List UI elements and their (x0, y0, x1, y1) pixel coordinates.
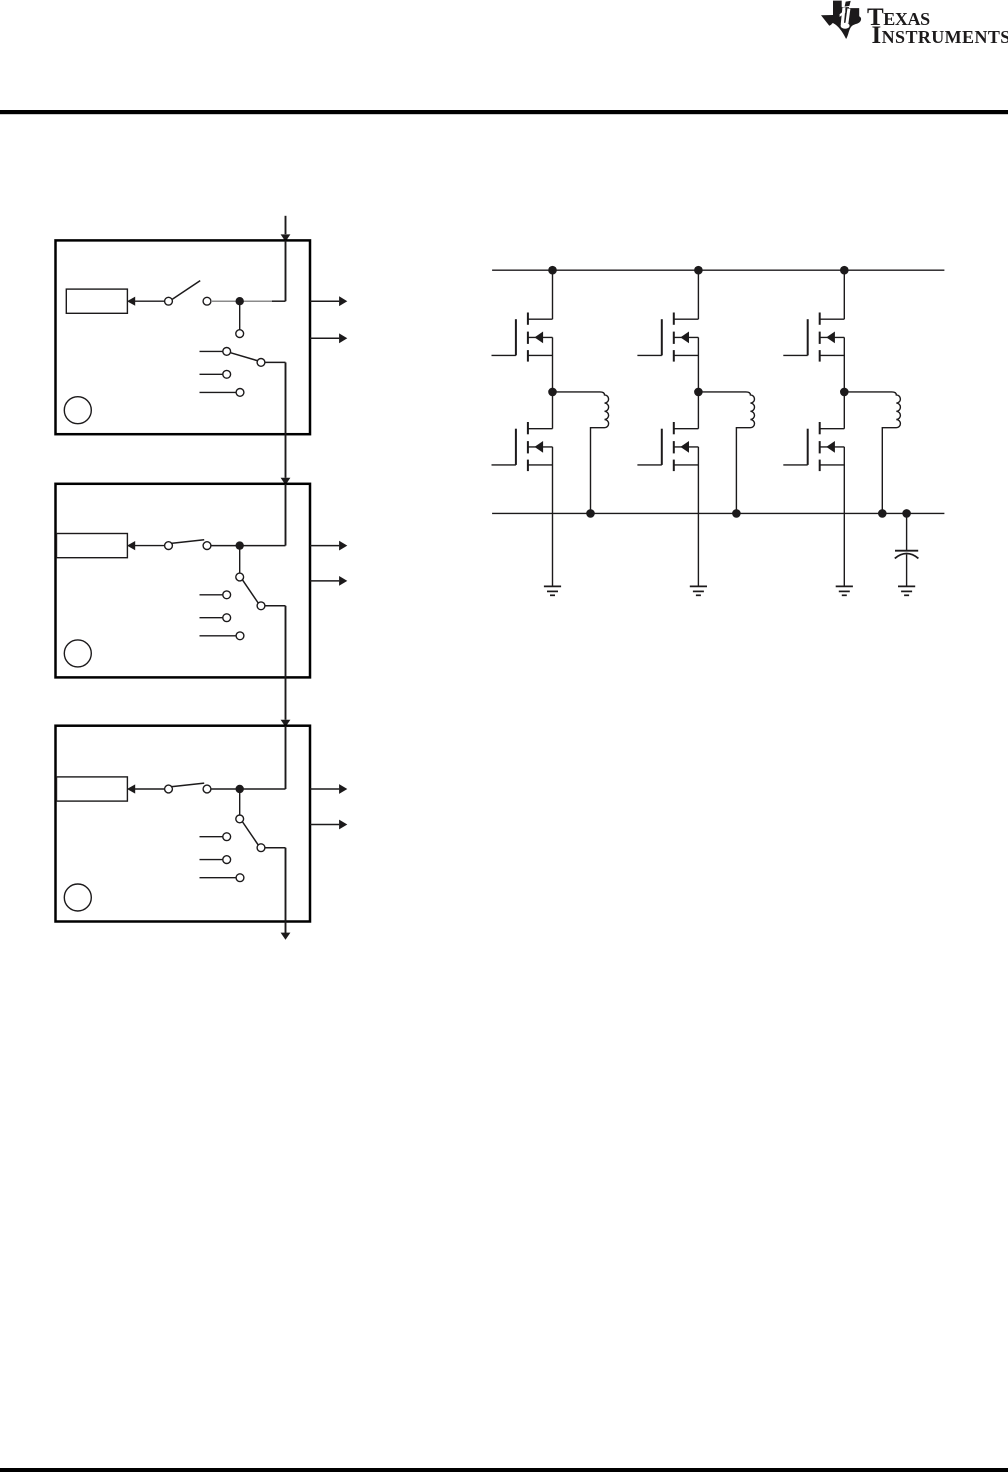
svg-text:Instruments: Instruments (872, 22, 1008, 49)
